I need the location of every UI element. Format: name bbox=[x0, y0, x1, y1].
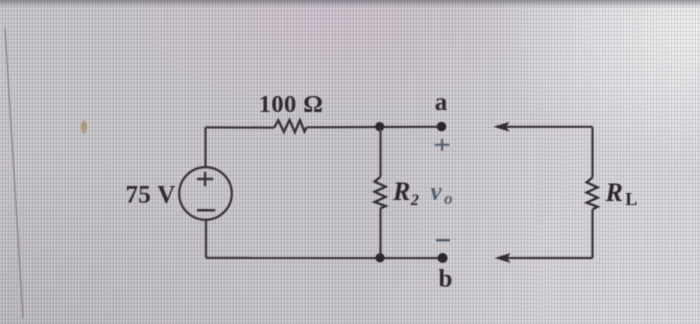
svg-text:100 Ω: 100 Ω bbox=[259, 91, 324, 118]
resistor R2 bbox=[375, 177, 386, 209]
svg-text:RL: RL bbox=[605, 178, 638, 209]
wire top left segment bbox=[206, 126, 275, 128]
svg-text:75 V: 75 V bbox=[126, 181, 176, 208]
resistor RL bbox=[587, 178, 598, 210]
voltage source V1 bbox=[179, 167, 232, 220]
minus terminal marking bbox=[436, 239, 450, 242]
photo speck (decorative) bbox=[81, 121, 87, 134]
arrow to node b bbox=[496, 254, 593, 262]
arrow to node a bbox=[495, 123, 593, 131]
junction dot top of R2 bbox=[375, 122, 384, 131]
svg-text:R2: R2 bbox=[392, 177, 419, 209]
photo page edge (decorative) bbox=[5, 28, 23, 318]
wire R2 bottom lead bbox=[379, 208, 381, 258]
wire right top bbox=[591, 127, 593, 178]
node a bbox=[437, 122, 447, 132]
svg-text:vo: vo bbox=[431, 178, 453, 208]
resistor 100 Ω bbox=[274, 120, 306, 132]
wire R2 top lead bbox=[379, 127, 381, 177]
wire source bottom bbox=[205, 220, 207, 258]
wire right bottom bbox=[591, 210, 593, 259]
wire bottom bbox=[206, 257, 443, 259]
plus terminal marking bbox=[435, 139, 450, 151]
wire top right segment bbox=[307, 126, 442, 129]
junction dot bottom of R2 bbox=[375, 253, 384, 262]
svg-text:b: b bbox=[439, 266, 453, 293]
wire left bbox=[204, 127, 206, 168]
node b bbox=[438, 253, 448, 263]
svg-text:a: a bbox=[435, 89, 448, 116]
